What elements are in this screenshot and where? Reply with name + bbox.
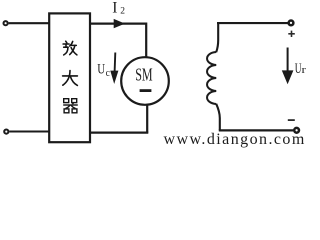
terminal T1 (input top-left) (4, 21, 8, 25)
minus polarity (288, 119, 295, 121)
svg-text:SM: SM (135, 65, 152, 85)
svg-text:c: c (106, 68, 111, 79)
wire coil to terminal T4 (219, 129, 293, 131)
plus polarity (288, 31, 295, 37)
wire T1 to amplifier box (9, 22, 49, 24)
wire T2 to amplifier box (9, 130, 49, 132)
coil L (motor winding) (207, 52, 216, 104)
character 放 (63, 41, 77, 55)
character 器 (63, 99, 78, 113)
terminal T3 (output top-right) (289, 21, 294, 26)
motor SM (servomotor) (121, 57, 169, 105)
amplifier box 放大器 (49, 13, 90, 142)
terminal T4 (output bottom-right) (294, 128, 299, 133)
wire node A down to SM motor (145, 23, 147, 58)
wire box to node A (with current arrow) (90, 23, 146, 25)
svg-text:2: 2 (120, 7, 125, 17)
wire coil top to terminal T3 (217, 22, 289, 24)
wire SM bottom down (146, 105, 148, 133)
character 大 (63, 71, 78, 86)
voltage arrow Ur (287, 48, 289, 73)
svg-text:I: I (112, 0, 117, 16)
wire down to coil (216, 22, 218, 52)
svg-text:U: U (97, 62, 105, 78)
wire back to amplifier box bottom (90, 132, 149, 134)
svg-text:r: r (302, 65, 307, 76)
arrowhead I2 (114, 19, 125, 28)
svg-text:www.diangon.com: www.diangon.com (164, 131, 305, 148)
wire coil bottom (216, 104, 220, 131)
voltage arrow Uc (114, 53, 117, 73)
minus polarity inside SM (140, 89, 152, 92)
terminal T2 (input bottom-left) (4, 130, 8, 134)
